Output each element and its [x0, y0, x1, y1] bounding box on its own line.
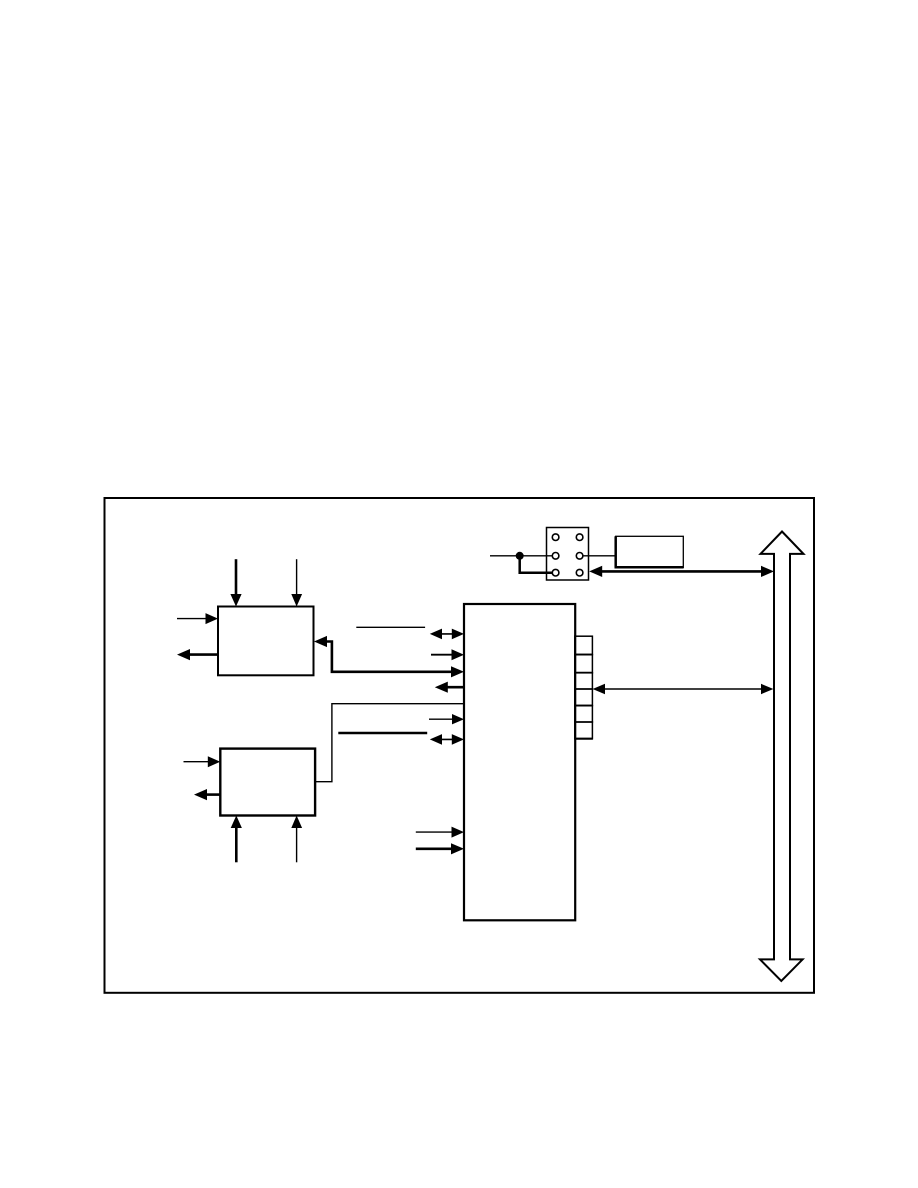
clock input arrow (thin) [416, 827, 464, 838]
jumper block J1 [547, 528, 589, 581]
box A top input arrow (thick) [230, 559, 241, 606]
wire from junction to jumper pin 5 [520, 556, 553, 573]
system bus (large vertical double arrow) [760, 532, 804, 982]
wire jumper pin 4 to oscillator [583, 555, 616, 557]
jumper pin 2 [576, 534, 583, 541]
junction dot [516, 552, 524, 560]
box B left output arrow (thick) [194, 789, 220, 800]
wire into jumper pin 3 [490, 555, 552, 557]
bent thick wire box1 to U1 (arrows both ends) [314, 636, 464, 678]
page border frame [105, 498, 815, 993]
bidirectional pin arrow top [430, 629, 464, 640]
box B bottom input arrow (thin) [291, 816, 302, 863]
register stack cell 5 [575, 706, 593, 722]
input pin arrow (medium) [431, 649, 464, 660]
register stack cell 3 [575, 673, 593, 689]
box B bottom input arrow (thick) [231, 816, 242, 863]
interface box A [218, 607, 314, 676]
floating signal line (thin) [356, 626, 425, 628]
clock input arrow (thick) [416, 843, 464, 854]
main controller U1 [464, 604, 575, 920]
oscillator box Y1 [615, 536, 684, 567]
jumper pin 6 [576, 569, 583, 576]
register stack cell 1 [575, 636, 593, 654]
input pin arrow (thin) [429, 714, 464, 724]
jumper pin 4 [576, 553, 583, 560]
wire register stack to system bus (double arrow, thin) [593, 684, 774, 694]
bidirectional pin arrow bottom [430, 734, 464, 745]
box B left input arrow [184, 756, 221, 767]
box A top input arrow (thin) [291, 559, 302, 606]
jumper pin 3 [552, 553, 559, 560]
bus wire jumper to system bus (double arrow, thick) [589, 566, 774, 577]
jumper pin 5 [552, 569, 559, 576]
register stack thick edges [575, 655, 593, 739]
box A left output arrow (thick) [177, 649, 218, 660]
register stack cell 2 [575, 655, 593, 673]
interface box B [220, 749, 315, 816]
register stack cell 6 [575, 722, 593, 739]
floating signal line (thick) [338, 732, 427, 735]
wire box2 to U1 (plain) [316, 704, 465, 782]
register stack cell 4 [575, 689, 593, 706]
box A left input arrow [177, 613, 218, 624]
output pin arrow (thick, left) [435, 682, 464, 693]
jumper pin 1 [552, 534, 559, 541]
